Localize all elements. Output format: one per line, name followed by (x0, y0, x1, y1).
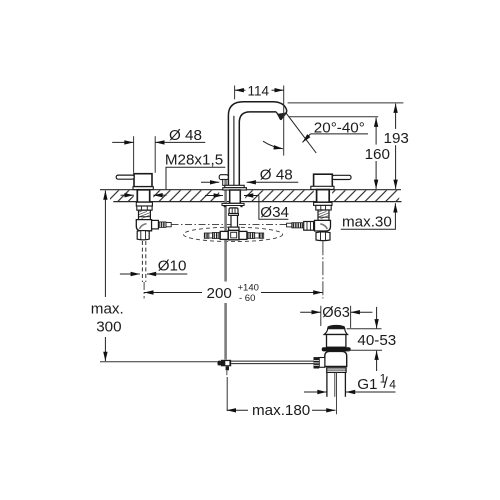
right valve hose knurl (292, 223, 303, 228)
rod clamp (218, 361, 222, 366)
dim max.180 (227, 409, 248, 411)
dim Ø63 ext lines (320, 306, 322, 326)
dim 114 ext lines (234, 86, 236, 100)
left hole arrows (121, 194, 134, 196)
waste upper cylinder (327, 335, 346, 348)
dim 160 (375, 118, 377, 145)
label Ø34 (259, 196, 289, 220)
dim max.300 (104, 191, 106, 298)
dim Ø48 center (201, 181, 219, 183)
left valve hose tip (166, 223, 171, 227)
spout shank in counter (230, 190, 241, 203)
left valve hose knurl (158, 222, 166, 228)
left valve shank (137, 190, 149, 202)
dim 20-40 diagonal stream line (286, 112, 317, 153)
svg-text:/: / (383, 375, 388, 392)
waste flare neck (324, 329, 347, 335)
left valve head (134, 174, 152, 187)
right valve lever (332, 175, 351, 179)
svg-text:- 60: - 60 (239, 293, 255, 304)
ext line spout top (288, 102, 404, 104)
dim 200 (144, 292, 202, 294)
dim max.180 ext line (226, 377, 228, 411)
tee left arm (220, 231, 228, 239)
spout mouth aerator (278, 113, 285, 120)
waste axis line (336, 372, 338, 414)
svg-text:G1: G1 (357, 376, 377, 393)
basin dashed ellipse (183, 227, 282, 241)
wire hose-centerline between valves (172, 224, 288, 226)
right valve flange ring (314, 202, 332, 205)
dim 40-53 (376, 307, 378, 329)
svg-text:4: 4 (389, 378, 396, 392)
right valve elbow (315, 220, 331, 231)
spout shank nut (229, 208, 238, 214)
swivel arc arrow (263, 141, 283, 149)
waste bottom flange (327, 368, 346, 373)
svg-text:Ø34: Ø34 (260, 204, 289, 221)
waste knurled knob (314, 357, 320, 368)
right valve threaded body (318, 210, 329, 220)
waste o-ring (322, 347, 351, 351)
waste plug dome (327, 325, 345, 330)
dim G1 1/4 (304, 391, 327, 393)
svg-text:max.30: max.30 (342, 214, 392, 231)
left valve bottom nut (137, 231, 149, 240)
left valve hose hex (152, 220, 159, 229)
horizontal pull rod to waste (231, 360, 313, 362)
right valve hose hex (304, 222, 314, 231)
spout mounting flange under counter (222, 203, 244, 205)
left valve elbow (136, 220, 151, 231)
right valve hose tip (287, 223, 292, 227)
right valve head (314, 174, 333, 187)
left flexible hose dashed (141, 241, 143, 282)
svg-text:114: 114 (248, 83, 270, 98)
left valve nut (137, 206, 152, 210)
dim Ø34 arrows center hole (205, 195, 223, 197)
svg-text:160: 160 (365, 146, 390, 163)
waste tailpipe (326, 372, 328, 396)
countertop bottom line (113, 201, 401, 203)
left valve threaded body (139, 210, 151, 219)
ext line spout outlet (289, 116, 378, 118)
dim 40-53 ext lines (347, 328, 382, 330)
label 20-40 leader (303, 134, 311, 143)
svg-text:max.180: max.180 (252, 402, 310, 419)
spout tube (228, 102, 286, 186)
left valve lever (116, 175, 134, 179)
dim Ø63 (300, 311, 321, 313)
dim 114 (235, 89, 246, 91)
countertop top line (100, 189, 401, 191)
right valve shank (317, 190, 330, 203)
horizontal reference line (100, 361, 218, 363)
svg-text:20°-40°: 20°-40° (314, 120, 365, 137)
dim Ø48 left ext lines (133, 136, 135, 173)
waste body (325, 351, 347, 366)
svg-text:Ø10: Ø10 (158, 257, 187, 274)
svg-text:Ø 48: Ø 48 (169, 127, 202, 144)
right valve nut (316, 205, 331, 210)
spout base flange (225, 185, 244, 187)
pop-up knob (219, 175, 228, 180)
waste knob connector (319, 358, 325, 368)
svg-text:40-53: 40-53 (357, 332, 396, 349)
left valve axis centerline (143, 282, 145, 299)
svg-text:200: 200 (207, 285, 232, 302)
right valve axis centerline (322, 241, 324, 298)
svg-text:max.: max. (91, 300, 124, 317)
svg-text:193: 193 (384, 130, 409, 147)
countertop hatch band (110, 190, 399, 201)
dim Ø10 (120, 273, 140, 275)
pop-up rod (gray) (224, 180, 227, 360)
dim 193 (395, 104, 397, 129)
tee right arm (239, 231, 247, 239)
right valve base plate (311, 186, 334, 189)
tee block (229, 227, 239, 230)
svg-text:M28x1,5: M28x1,5 (165, 151, 223, 168)
svg-text:300: 300 (96, 318, 121, 335)
label max.30 (341, 203, 396, 229)
left valve base plate (133, 187, 153, 190)
right valve bottom nut (316, 232, 330, 241)
svg-text:Ø 48: Ø 48 (260, 167, 293, 184)
dim Ø48 left (112, 141, 133, 143)
spout supply tube (231, 215, 238, 227)
svg-text:Ø63: Ø63 (322, 305, 350, 321)
left valve flange ring (136, 202, 152, 206)
